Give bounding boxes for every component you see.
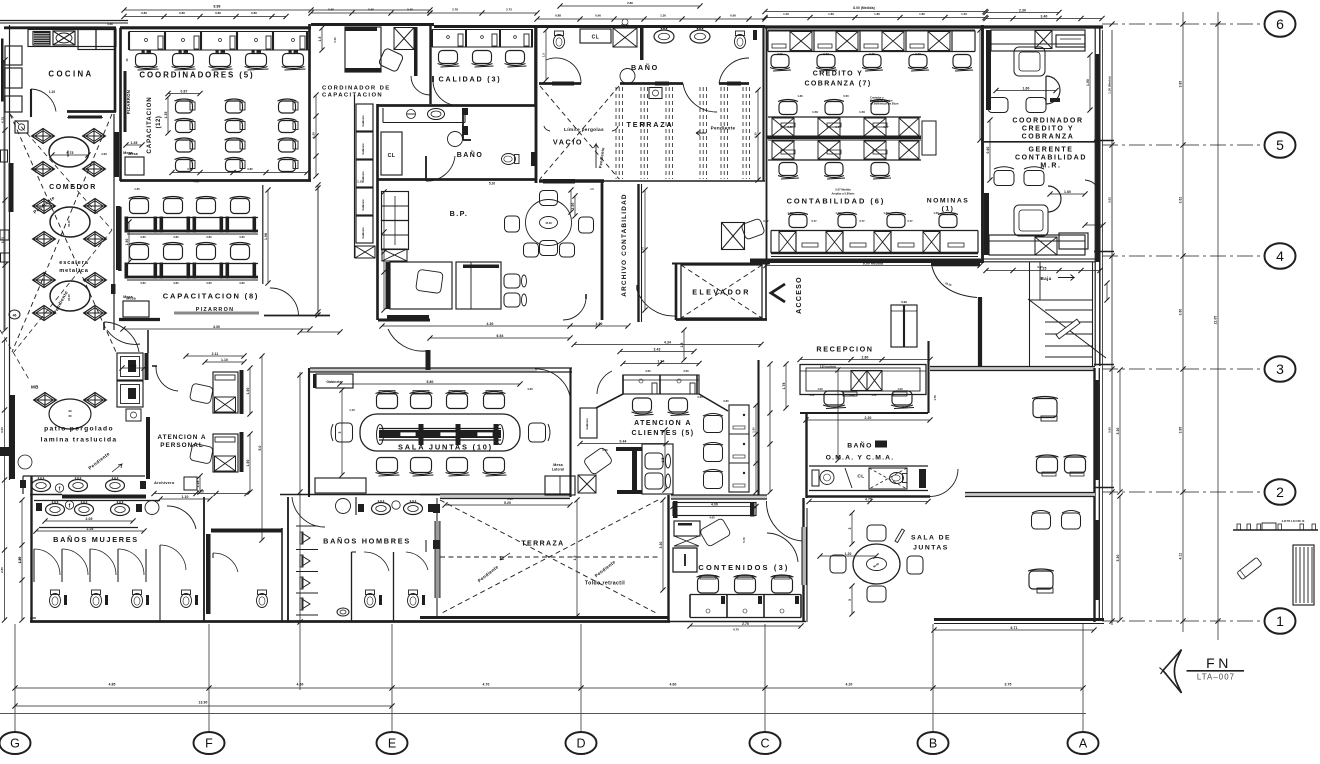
svg-text:D: D — [576, 737, 585, 751]
svg-text:0.40: 0.40 — [1037, 265, 1043, 269]
svg-text:1.36: 1.36 — [797, 94, 803, 98]
svg-text:(1): (1) — [942, 206, 955, 213]
svg-text:4.70: 4.70 — [483, 683, 490, 687]
svg-text:1.5: 1.5 — [542, 53, 546, 57]
svg-text:1.60: 1.60 — [1064, 190, 1071, 194]
svg-text:1.30: 1.30 — [883, 211, 889, 215]
svg-text:4.00: 4.00 — [709, 516, 715, 520]
svg-text:Gabinete: Gabinete — [361, 227, 365, 239]
svg-text:(12): (12) — [156, 116, 162, 129]
svg-text:5.07 Medida: 5.07 Medida — [835, 188, 851, 192]
svg-text:VACIO: VACIO — [553, 138, 583, 147]
svg-text:1.5: 1.5 — [590, 187, 594, 191]
svg-text:1.50: 1.50 — [125, 238, 129, 245]
svg-text:0.40: 0.40 — [407, 8, 413, 12]
svg-text:CL: CL — [857, 474, 864, 480]
svg-text:1.10: 1.10 — [49, 90, 55, 94]
svg-text:3.75: 3.75 — [1005, 683, 1012, 687]
svg-text:1.50: 1.50 — [246, 387, 250, 394]
svg-text:PERSONAL: PERSONAL — [160, 442, 204, 449]
svg-text:CONTENIDOS (3): CONTENIDOS (3) — [698, 563, 789, 572]
svg-text:patio pergolado: patio pergolado — [44, 426, 114, 433]
svg-text:CONTABILIDAD: CONTABILIDAD — [1015, 155, 1087, 162]
svg-text:6.20: 6.20 — [507, 497, 513, 501]
svg-text:CALIDAD (3): CALIDAD (3) — [439, 75, 502, 84]
svg-text:1.5: 1.5 — [680, 342, 684, 347]
svg-text:BAÑOS HOMBRES: BAÑOS HOMBRES — [323, 537, 411, 546]
svg-text:BAÑO: BAÑO — [847, 441, 873, 450]
svg-text:CORDINADOR DE: CORDINADOR DE — [322, 86, 391, 92]
svg-text:0.90: 0.90 — [730, 14, 736, 18]
svg-text:0.80: 0.80 — [173, 281, 179, 285]
svg-text:6.75: 6.75 — [67, 151, 74, 155]
svg-text:CL: CL — [388, 153, 396, 159]
svg-text:ACCESO: ACCESO — [796, 276, 803, 314]
svg-text:4.20: 4.20 — [846, 683, 853, 687]
svg-text:C: C — [760, 737, 769, 751]
svg-text:2.11: 2.11 — [212, 352, 219, 356]
svg-text:45.00: 45.00 — [545, 221, 552, 225]
svg-text:Ampliar a 5.80mts: Ampliar a 5.80mts — [831, 192, 855, 196]
svg-text:0.77: 0.77 — [859, 219, 865, 223]
svg-text:3: 3 — [848, 528, 852, 530]
svg-text:5.80: 5.80 — [427, 380, 434, 384]
svg-text:1.80: 1.80 — [828, 12, 834, 16]
svg-text:8.00 (Medida): 8.00 (Medida) — [853, 6, 875, 10]
svg-text:CREDITO Y: CREDITO Y — [1022, 126, 1074, 133]
svg-text:en bibliotecas de 28cm: en bibliotecas de 28cm — [870, 102, 899, 106]
svg-text:COCINA: COCINA — [48, 70, 93, 79]
svg-text:2.72: 2.72 — [506, 8, 512, 12]
svg-text:Gabinete: Gabinete — [361, 143, 365, 155]
svg-text:Gabinete: Gabinete — [326, 380, 341, 384]
svg-text:B: B — [929, 737, 937, 751]
svg-text:0.77: 0.77 — [787, 125, 793, 129]
svg-text:6.00 Medida: 6.00 Medida — [863, 261, 883, 265]
svg-text:CAPACITACION: CAPACITACION — [146, 96, 153, 153]
svg-text:46: 46 — [13, 314, 17, 318]
svg-text:3.62: 3.62 — [1108, 197, 1112, 203]
svg-text:1.35: 1.35 — [134, 187, 140, 191]
svg-text:0.87: 0.87 — [181, 89, 188, 93]
svg-text:0.40 TR 1.40 CFE 16: 0.40 TR 1.40 CFE 16 — [1282, 520, 1305, 523]
svg-text:1.50: 1.50 — [1086, 79, 1090, 86]
svg-text:0.80: 0.80 — [239, 235, 245, 239]
svg-text:1.78: 1.78 — [933, 395, 937, 401]
svg-text:0.60: 0.60 — [328, 8, 334, 12]
svg-text:6: 6 — [1276, 16, 1284, 32]
svg-text:1.5: 1.5 — [318, 36, 322, 41]
svg-text:Mesa: Mesa — [128, 152, 138, 156]
svg-text:1.10: 1.10 — [221, 358, 228, 362]
svg-text:4.30: 4.30 — [487, 322, 494, 326]
svg-text:0.40: 0.40 — [850, 394, 855, 397]
svg-text:1.50: 1.50 — [312, 132, 316, 138]
svg-text:60: 60 — [68, 414, 72, 418]
svg-text:COBRANZA (7): COBRANZA (7) — [804, 81, 871, 88]
svg-text:0.77: 0.77 — [823, 52, 829, 56]
svg-text:1.18: 1.18 — [196, 480, 200, 487]
svg-text:CL: CL — [592, 35, 600, 41]
svg-text:NOMINAS: NOMINAS — [927, 198, 970, 205]
svg-text:1.80: 1.80 — [919, 12, 925, 16]
svg-text:4.30: 4.30 — [596, 322, 603, 326]
svg-text:1.60: 1.60 — [1023, 86, 1030, 90]
svg-text:2.26: 2.26 — [87, 527, 94, 531]
svg-text:1.50: 1.50 — [571, 202, 575, 209]
svg-text:ATENCION A: ATENCION A — [634, 420, 692, 427]
svg-text:lamina traslucida: lamina traslucida — [41, 437, 118, 444]
svg-text:3.95: 3.95 — [1108, 427, 1112, 433]
svg-text:2.80: 2.80 — [0, 567, 4, 573]
svg-text:0.50: 0.50 — [843, 94, 849, 98]
svg-text:0.77: 0.77 — [869, 52, 875, 56]
svg-text:3.85: 3.85 — [1179, 81, 1183, 88]
svg-text:2.05: 2.05 — [86, 517, 93, 521]
svg-text:3.40: 3.40 — [1041, 14, 1048, 18]
svg-text:2.20: 2.20 — [865, 416, 872, 420]
svg-text:1.50: 1.50 — [246, 459, 250, 466]
svg-text:RECEPCION: RECEPCION — [816, 345, 873, 354]
svg-text:4.60: 4.60 — [297, 683, 304, 687]
svg-text:COBRANZA: COBRANZA — [1022, 134, 1075, 141]
svg-text:0.40: 0.40 — [810, 394, 815, 397]
svg-text:metalica: metalica — [59, 268, 89, 274]
svg-text:1.98: 1.98 — [264, 233, 268, 240]
svg-text:0.88: 0.88 — [555, 14, 561, 18]
svg-text:1.10: 1.10 — [349, 408, 355, 412]
svg-text:BAÑO: BAÑO — [457, 150, 484, 159]
svg-text:1.20: 1.20 — [961, 12, 967, 16]
svg-text:ATENCION A: ATENCION A — [157, 434, 206, 441]
svg-text:1.35: 1.35 — [131, 141, 138, 145]
svg-text:6.75: 6.75 — [1, 237, 5, 243]
svg-text:PIZARRON: PIZARRON — [126, 90, 131, 114]
svg-text:Baja: Baja — [1041, 276, 1052, 281]
svg-text:escalera: escalera — [59, 260, 89, 266]
svg-text:1.20: 1.20 — [783, 12, 789, 16]
svg-text:0.80: 0.80 — [140, 281, 146, 285]
svg-text:TERRAZA: TERRAZA — [627, 120, 674, 129]
svg-text:4.20: 4.20 — [527, 387, 533, 391]
svg-text:3.30: 3.30 — [659, 541, 663, 548]
svg-text:0.60: 0.60 — [683, 369, 689, 373]
svg-text:F: F — [205, 737, 213, 751]
svg-text:Lateral: Lateral — [552, 468, 565, 472]
svg-text:3.30: 3.30 — [1116, 427, 1120, 434]
svg-text:BAÑOS MUJERES: BAÑOS MUJERES — [53, 535, 139, 544]
svg-text:ELEVADOR: ELEVADOR — [692, 288, 751, 297]
svg-text:0.80: 0.80 — [173, 235, 179, 239]
svg-text:Mesa: Mesa — [553, 463, 563, 467]
svg-text:0.15: 0.15 — [333, 37, 337, 43]
svg-text:3: 3 — [848, 599, 852, 601]
svg-text:0.80: 0.80 — [187, 167, 193, 171]
svg-text:3.95: 3.95 — [1179, 427, 1183, 434]
svg-text:1.78: 1.78 — [782, 382, 786, 389]
svg-text:CLIENTES (5): CLIENTES (5) — [631, 430, 694, 437]
svg-text:3.30: 3.30 — [1116, 554, 1120, 561]
svg-text:Toldo retractíl: Toldo retractíl — [585, 581, 625, 587]
svg-text:CAPACITACION (8): CAPACITACION (8) — [163, 292, 259, 301]
svg-text:0.80: 0.80 — [206, 281, 212, 285]
svg-text:O.M.A. Y C.M.A.: O.M.A. Y C.M.A. — [826, 455, 895, 462]
svg-text:1.30: 1.30 — [660, 14, 666, 18]
svg-text:0.77: 0.77 — [883, 125, 889, 129]
svg-text:5.20: 5.20 — [504, 501, 511, 505]
svg-text:1.70: 1.70 — [641, 247, 645, 253]
svg-text:0.44: 0.44 — [620, 439, 627, 443]
svg-text:90.00: 90.00 — [67, 220, 71, 227]
svg-text:4.85: 4.85 — [109, 683, 116, 687]
svg-text:22.05: 22.05 — [1214, 316, 1218, 325]
svg-text:COORDINADORES (5): COORDINADORES (5) — [139, 71, 254, 80]
svg-text:0.80: 0.80 — [206, 235, 212, 239]
svg-text:1.30: 1.30 — [754, 132, 758, 138]
svg-text:4.12: 4.12 — [1179, 553, 1183, 560]
svg-text:SALA JUNTAS (10): SALA JUNTAS (10) — [398, 443, 493, 452]
svg-text:COORDINADOR: COORDINADOR — [1012, 118, 1083, 125]
svg-text:2.70: 2.70 — [742, 622, 749, 626]
svg-text:0.30: 0.30 — [697, 395, 703, 399]
svg-text:3: 3 — [338, 432, 342, 434]
svg-text:2.80: 2.80 — [627, 1, 633, 5]
svg-text:A: A — [1079, 737, 1088, 751]
svg-text:3.62: 3.62 — [1179, 197, 1183, 204]
svg-text:0.80: 0.80 — [141, 11, 147, 15]
svg-text:G: G — [10, 737, 20, 751]
svg-text:1.50: 1.50 — [859, 110, 865, 114]
svg-text:BAÑO: BAÑO — [631, 63, 659, 72]
svg-text:0.60: 0.60 — [645, 369, 651, 373]
svg-text:6.54: 6.54 — [497, 334, 504, 338]
svg-text:0.46: 0.46 — [602, 448, 608, 452]
svg-text:3.43: 3.43 — [654, 347, 661, 351]
svg-text:1.10: 1.10 — [182, 495, 189, 499]
svg-text:0.40: 0.40 — [872, 394, 877, 397]
svg-text:0.80: 0.80 — [179, 11, 185, 15]
svg-text:1.50 (Medio): 1.50 (Medio) — [1108, 76, 1112, 93]
svg-text:2.80: 2.80 — [862, 355, 869, 359]
svg-text:0.90: 0.90 — [902, 405, 908, 409]
svg-text:8.88: 8.88 — [214, 5, 221, 9]
svg-text:5: 5 — [1276, 137, 1284, 153]
svg-text:0.80: 0.80 — [140, 235, 146, 239]
svg-text:0.30 escritorio: 0.30 escritorio — [820, 366, 837, 369]
svg-text:TERRAZA: TERRAZA — [521, 541, 564, 548]
svg-text:0.60: 0.60 — [130, 364, 137, 368]
svg-text:1.30: 1.30 — [787, 211, 793, 215]
svg-text:1.20: 1.20 — [897, 387, 903, 391]
svg-text:0.77: 0.77 — [811, 219, 817, 223]
svg-text:0.77: 0.77 — [763, 219, 769, 223]
svg-text:4.42: 4.42 — [193, 180, 199, 184]
svg-text:1.10: 1.10 — [18, 557, 22, 563]
svg-text:0.77: 0.77 — [915, 52, 921, 56]
svg-text:Archivero: Archivero — [154, 480, 175, 485]
svg-text:1.50: 1.50 — [812, 110, 818, 114]
svg-text:0.80: 0.80 — [247, 167, 253, 171]
svg-text:4.30: 4.30 — [213, 325, 220, 329]
svg-text:1.80: 1.80 — [874, 12, 880, 16]
svg-text:3.60: 3.60 — [1179, 309, 1183, 316]
svg-text:1: 1 — [1276, 613, 1284, 629]
svg-text:1.35: 1.35 — [164, 111, 168, 118]
svg-text:CONTABILIDAD (6): CONTABILIDAD (6) — [787, 197, 886, 206]
svg-text:0.77: 0.77 — [907, 219, 913, 223]
svg-text:2: 2 — [1276, 484, 1284, 500]
svg-text:0.90: 0.90 — [901, 300, 907, 304]
svg-text:CAPACITACION: CAPACITACION — [322, 93, 383, 99]
svg-text:Gabinete: Gabinete — [585, 418, 589, 430]
svg-text:MB: MB — [31, 385, 39, 390]
svg-text:1.50: 1.50 — [752, 427, 756, 433]
svg-text:0.60: 0.60 — [986, 146, 990, 153]
svg-text:4.60: 4.60 — [670, 683, 677, 687]
svg-text:2.78: 2.78 — [452, 8, 458, 12]
svg-text:Límite pergolas: Límite pergolas — [564, 127, 604, 133]
svg-text:3: 3 — [1276, 361, 1284, 377]
svg-text:1.94: 1.94 — [658, 359, 665, 363]
svg-text:4.75: 4.75 — [865, 497, 872, 501]
svg-text:4: 4 — [1276, 248, 1284, 264]
svg-text:5.0: 5.0 — [258, 445, 262, 450]
svg-text:1.5: 1.5 — [573, 555, 577, 560]
svg-text:JUNTAS: JUNTAS — [913, 545, 949, 552]
svg-text:LTA–007: LTA–007 — [1197, 673, 1235, 682]
svg-text:5.70: 5.70 — [742, 537, 746, 543]
svg-text:GERENTE: GERENTE — [1028, 147, 1073, 154]
svg-text:4.00: 4.00 — [711, 502, 718, 506]
svg-text:Gabinete: Gabinete — [361, 199, 365, 211]
svg-text:0.80: 0.80 — [215, 11, 221, 15]
svg-text:0.80: 0.80 — [251, 11, 257, 15]
svg-text:Pendiente: Pendiente — [711, 126, 736, 131]
svg-text:COMEDOR: COMEDOR — [49, 184, 97, 191]
svg-text:1.30: 1.30 — [933, 211, 939, 215]
svg-text:0.80: 0.80 — [723, 399, 729, 403]
svg-text:2.30: 2.30 — [1019, 8, 1026, 12]
svg-text:1.20: 1.20 — [845, 552, 852, 556]
svg-text:E: E — [388, 737, 396, 751]
svg-text:6.70: 6.70 — [733, 628, 739, 632]
svg-text:0.90: 0.90 — [777, 52, 783, 56]
svg-text:ARCHIVO CONTABILIDAD: ARCHIVO CONTABILIDAD — [621, 193, 628, 296]
svg-text:4.75: 4.75 — [1, 117, 5, 123]
svg-text:FN: FN — [1206, 655, 1232, 671]
svg-text:6.71: 6.71 — [1011, 626, 1018, 630]
svg-text:1.15: 1.15 — [357, 180, 363, 184]
svg-text:Mesa: Mesa — [126, 297, 136, 301]
svg-text:CREDITO Y: CREDITO Y — [813, 71, 863, 78]
svg-text:SALA DE: SALA DE — [911, 535, 951, 542]
svg-text:1.5: 1.5 — [661, 457, 665, 462]
svg-text:0.90: 0.90 — [595, 14, 601, 18]
svg-text:13.90: 13.90 — [199, 701, 208, 705]
svg-text:0.88: 0.88 — [107, 22, 113, 26]
svg-text:4.60: 4.60 — [101, 152, 107, 156]
svg-text:0.80: 0.80 — [239, 281, 245, 285]
svg-text:90: 90 — [68, 409, 72, 413]
svg-text:0.90: 0.90 — [368, 8, 374, 12]
svg-text:90.00: 90.00 — [67, 294, 71, 301]
svg-text:5.10: 5.10 — [489, 182, 495, 186]
svg-text:0.77: 0.77 — [835, 125, 841, 129]
svg-text:B.P.: B.P. — [450, 209, 469, 218]
svg-text:1.20: 1.20 — [817, 387, 823, 391]
svg-text:1.30: 1.30 — [835, 211, 841, 215]
svg-text:Gabinete: Gabinete — [361, 115, 365, 127]
svg-text:4.34: 4.34 — [664, 340, 671, 344]
svg-text:3.00: 3.00 — [0, 427, 4, 433]
